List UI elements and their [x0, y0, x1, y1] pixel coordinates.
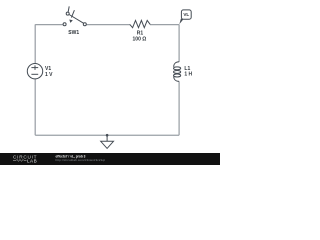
- wire left vertical lower: [34, 79, 36, 135]
- svg-text:100 Ω: 100 Ω: [133, 36, 147, 42]
- wire right vertical lower: [178, 81, 180, 135]
- svg-text:1 V: 1 V: [45, 72, 53, 78]
- svg-text:http://circuitlab.com/c3nwnz3c: http://circuitlab.com/c3nwnz3c21qt: [56, 158, 106, 162]
- wire bottom horizontal: [35, 134, 179, 136]
- wire top-right horizontal: [150, 24, 179, 26]
- ground: [101, 135, 114, 148]
- watermark bar: [0, 153, 220, 165]
- logo CircuitLab: [13, 154, 37, 163]
- wire top-middle horizontal: [87, 24, 130, 26]
- svg-text:SW1: SW1: [68, 30, 79, 36]
- svg-text:VL: VL: [183, 12, 189, 17]
- svg-text:1 H: 1 H: [184, 71, 192, 77]
- wire right vertical upper: [178, 24, 180, 62]
- junction node: [106, 134, 109, 137]
- wire left vertical upper: [34, 24, 36, 63]
- voltage source V1: [27, 63, 42, 78]
- wire top-left horizontal: [35, 24, 63, 26]
- svg-text:LAB: LAB: [27, 159, 37, 164]
- resistor R1: [130, 20, 150, 27]
- switch SW1: [63, 6, 86, 25]
- inductor L1: [174, 62, 181, 82]
- svg-text:V1: V1: [45, 66, 51, 72]
- node flag VL: [179, 10, 191, 24]
- svg-text:R1: R1: [137, 30, 144, 36]
